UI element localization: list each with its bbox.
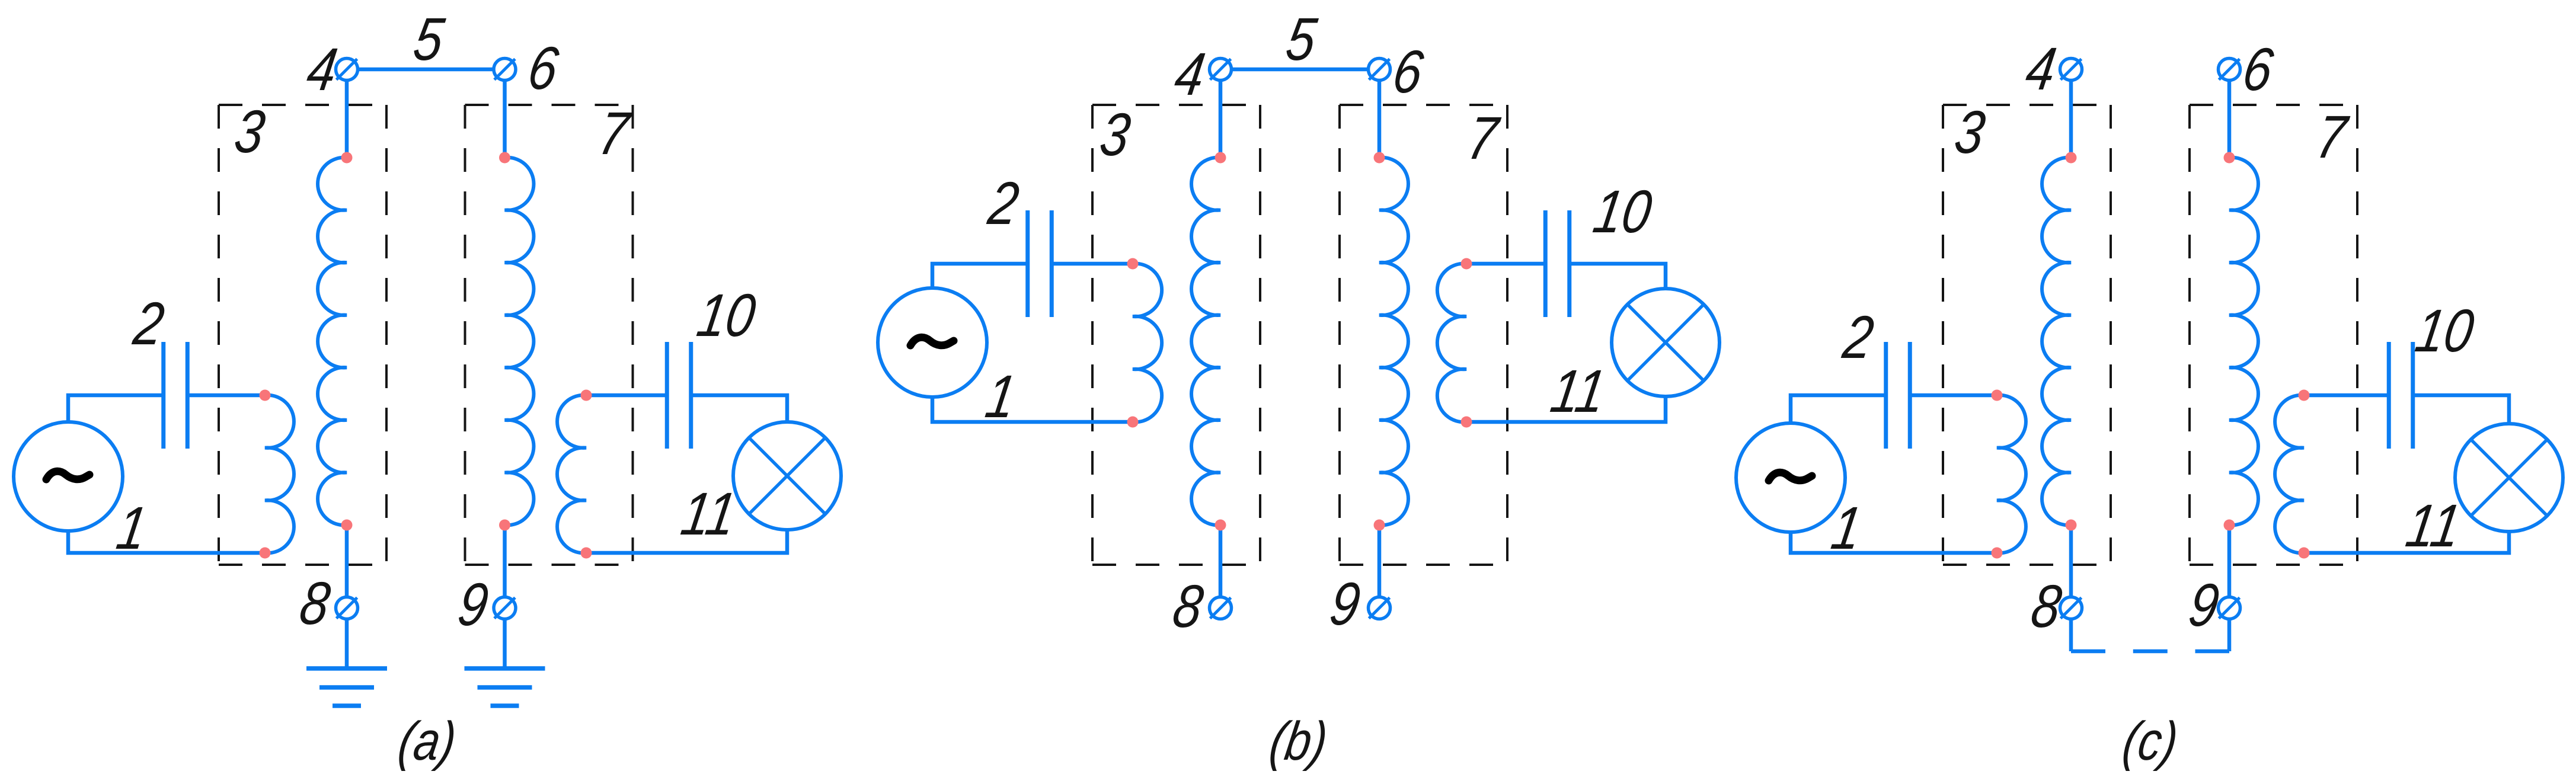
- svg-text:10: 10: [693, 282, 760, 350]
- svg-text:11: 11: [677, 481, 740, 548]
- svg-text:(c): (c): [2119, 711, 2182, 772]
- svg-text:10: 10: [2411, 297, 2478, 365]
- svg-text:(b): (b): [1266, 711, 1332, 772]
- svg-text:11: 11: [2402, 492, 2465, 560]
- svg-text:(a): (a): [395, 711, 461, 772]
- svg-text:10: 10: [1589, 178, 1656, 246]
- svg-text:11: 11: [1546, 358, 1610, 425]
